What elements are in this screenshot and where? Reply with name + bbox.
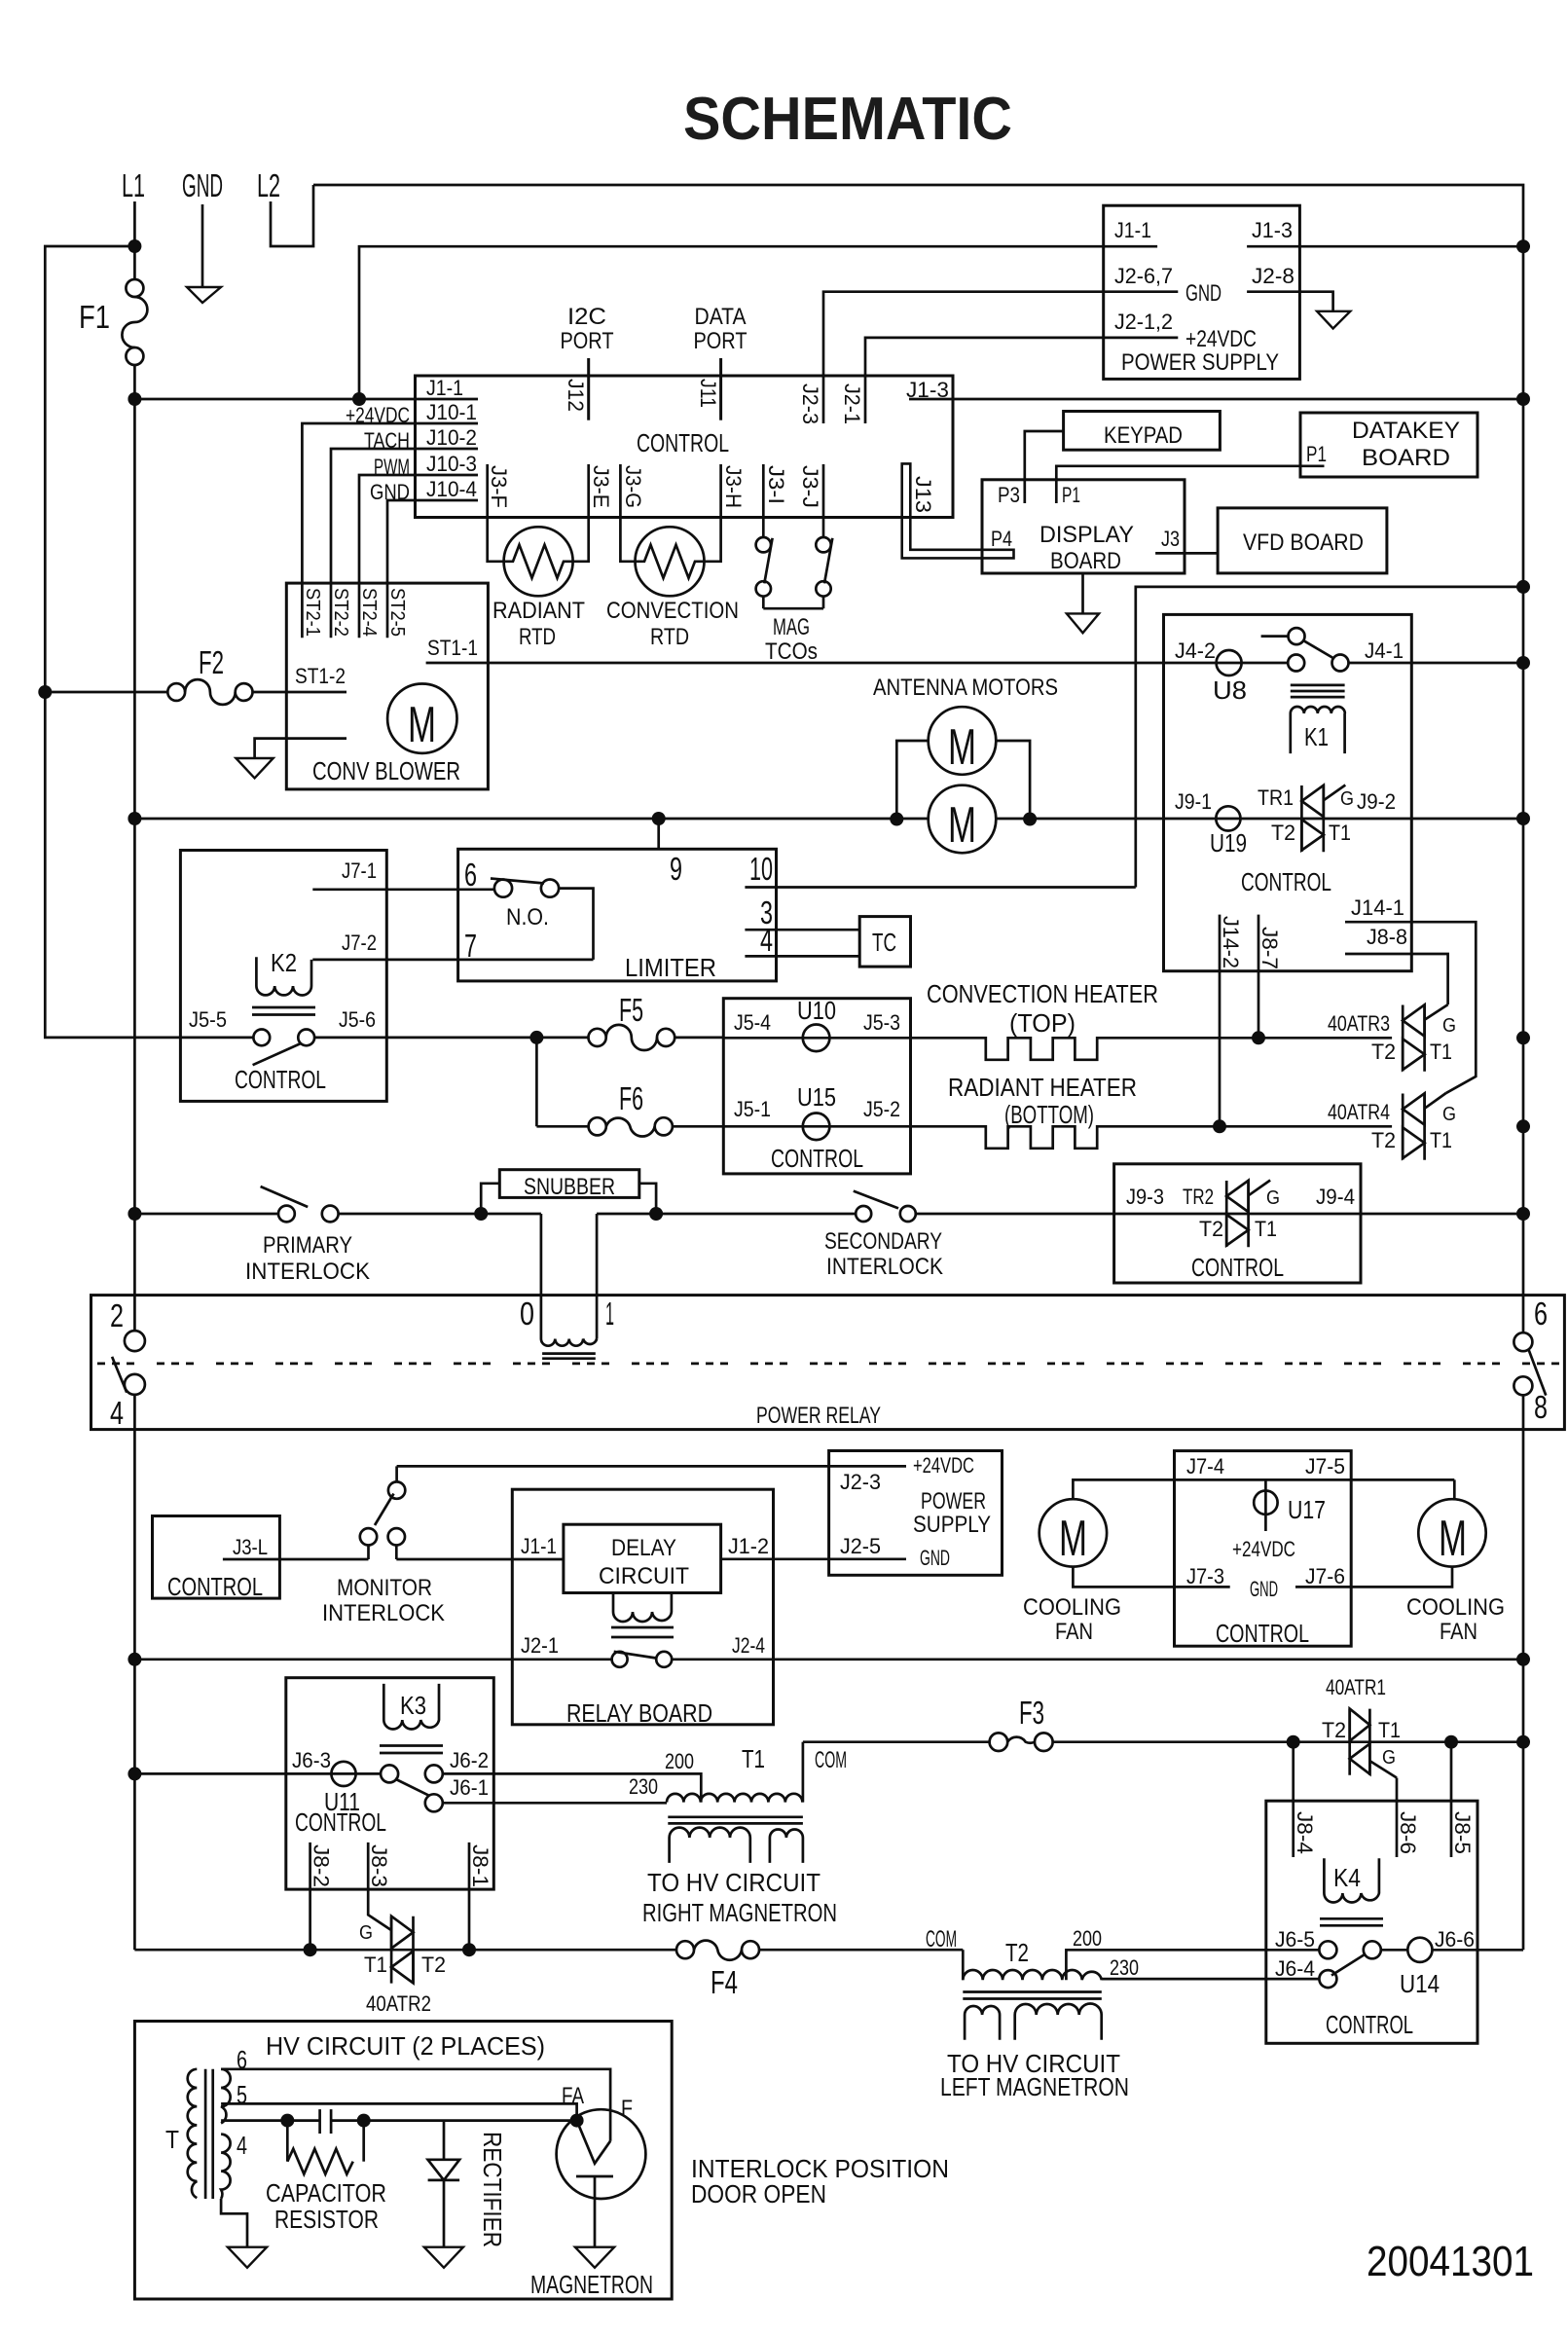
- svg-text:U14: U14: [1400, 1969, 1440, 1998]
- svg-text:T2: T2: [1371, 1128, 1396, 1152]
- label COOLING FAN left: [1023, 1594, 1121, 1645]
- wire power supply J1-1 link: [359, 246, 1104, 399]
- power relay coil 0/1: [541, 1339, 597, 1359]
- svg-text:J3-F: J3-F: [487, 465, 511, 508]
- svg-text:2: 2: [110, 1297, 124, 1333]
- svg-text:J8-1: J8-1: [468, 1844, 492, 1887]
- junction dot rail fans row: [1516, 1653, 1530, 1666]
- control box K3/U11: [286, 1678, 494, 1889]
- wire F1 to J1-1 row: [133, 365, 136, 399]
- svg-text:TR2: TR2: [1183, 1185, 1214, 1209]
- wire interlock row middle left: [339, 1213, 541, 1216]
- svg-text:GND: GND: [370, 480, 410, 504]
- transformer T2 primary: [963, 1950, 1102, 1998]
- junction dot rail y603: [1516, 580, 1530, 594]
- junction dot right rail J1-3 row: [1516, 392, 1530, 406]
- wire F4 to T2 COM: [759, 1949, 963, 1952]
- svg-text:U17: U17: [1288, 1495, 1326, 1524]
- pin line J12 I2C port: [587, 358, 590, 420]
- svg-text:T1: T1: [742, 1744, 765, 1773]
- svg-text:PORT: PORT: [694, 328, 748, 354]
- pin wire J8-3 to gate: [368, 1843, 391, 1930]
- control box TR2: [1114, 1164, 1361, 1283]
- svg-text:COOLING: COOLING: [1023, 1594, 1121, 1621]
- label PRIMARY INTERLOCK: [245, 1232, 370, 1285]
- motor antenna top: [929, 707, 997, 776]
- svg-text:J3-H: J3-H: [721, 465, 746, 508]
- label MONITOR INTERLOCK: [322, 1575, 445, 1626]
- svg-text:CONTROL: CONTROL: [637, 428, 729, 457]
- svg-text:J2-4: J2-4: [732, 1633, 765, 1658]
- svg-text:J2-8: J2-8: [1252, 264, 1295, 288]
- wire J5-1 J5-2 row: [723, 1125, 910, 1128]
- svg-text:KEYPAD: KEYPAD: [1104, 422, 1183, 449]
- heater radiant: [911, 1126, 1393, 1149]
- svg-text:G: G: [1382, 1747, 1396, 1769]
- control box K2: [180, 851, 386, 1102]
- svg-text:GND: GND: [1250, 1577, 1278, 1601]
- junction dot L1 J2-1 row: [128, 1653, 141, 1666]
- switch secondary interlock: [854, 1191, 916, 1222]
- svg-text:J5-3: J5-3: [863, 1010, 900, 1035]
- snubber box: [499, 1170, 639, 1198]
- svg-text:K4: K4: [1333, 1863, 1361, 1892]
- svg-text:P3: P3: [998, 483, 1020, 507]
- motor cooling fan right: [1418, 1499, 1485, 1567]
- svg-text:J7-1: J7-1: [342, 858, 377, 883]
- wire J5-5 inner: [180, 1037, 254, 1040]
- wire monitor interlock to +24VDC: [397, 1465, 829, 1468]
- VFD board box: [1218, 508, 1387, 573]
- svg-text:4: 4: [760, 922, 773, 958]
- wire T2 230 tap: [1102, 1979, 1320, 1980]
- wire keypad to P3: [1025, 431, 1064, 503]
- svg-text:J4-1: J4-1: [1365, 639, 1404, 663]
- wire J5-6 row: [314, 1037, 588, 1040]
- pin wire J3-J: [822, 464, 825, 537]
- label DISPLAY BOARD: [1039, 522, 1134, 574]
- svg-text:CONTROL: CONTROL: [167, 1572, 263, 1601]
- wire J4-1 to rail: [1349, 662, 1524, 665]
- wire J6-2 to T1 200: [443, 1773, 702, 1802]
- label RADIANT RTD: [492, 598, 585, 650]
- svg-text:230: 230: [1110, 1955, 1139, 1980]
- junction dot rail convection: [1516, 1031, 1530, 1044]
- svg-text:T1: T1: [364, 1953, 387, 1977]
- svg-text:CONTROL: CONTROL: [1191, 1253, 1284, 1282]
- wire HV pin 5: [221, 2103, 576, 2120]
- switch MAG TCO 1: [756, 537, 773, 608]
- control box U10/U15: [723, 999, 910, 1174]
- svg-text:J8-4: J8-4: [1293, 1811, 1317, 1854]
- relay switch K1: [1261, 628, 1349, 671]
- svg-text:PRIMARY: PRIMARY: [263, 1232, 352, 1259]
- svg-text:J7-2: J7-2: [342, 931, 377, 955]
- wire left fan bottom: [1073, 1567, 1229, 1588]
- wire power relay coil leg 1: [596, 1214, 599, 1339]
- svg-text:DELAY: DELAY: [611, 1535, 676, 1561]
- ground symbol at GND terminal: [187, 204, 221, 303]
- limiter box: [458, 849, 777, 981]
- svg-text:J9-3: J9-3: [1126, 1185, 1164, 1209]
- pin wire J10-2 TACH: [331, 449, 478, 638]
- wire interlock row middle right: [597, 1213, 856, 1216]
- component U14: [1400, 1938, 1440, 1998]
- svg-text:T2: T2: [1371, 1040, 1396, 1064]
- svg-text:TCOs: TCOs: [765, 639, 818, 665]
- junction dot motor left: [890, 813, 903, 826]
- svg-text:J3-G: J3-G: [621, 465, 645, 508]
- wire capacitor to FA: [331, 2119, 576, 2122]
- svg-text:G: G: [1442, 1015, 1456, 1037]
- ground symbol magnetron: [575, 2247, 614, 2268]
- motor antenna bottom: [929, 785, 997, 854]
- svg-text:ST2-5: ST2-5: [386, 588, 408, 637]
- wire T1 COM riser: [802, 1742, 805, 1803]
- label CAPACITOR RESISTOR: [266, 2178, 386, 2234]
- junction dot left rail F2: [38, 685, 52, 699]
- svg-text:J9-2: J9-2: [1357, 789, 1396, 814]
- label RADIANT HEATER (BOTTOM): [948, 1073, 1137, 1129]
- wire L1 rail upper: [133, 399, 136, 1331]
- wire power relay coil leg 0: [540, 1214, 543, 1339]
- svg-text:20041301: 20041301: [1367, 2238, 1534, 2285]
- svg-text:M: M: [948, 719, 976, 776]
- wire F6 branch: [535, 1038, 538, 1126]
- junction dot rail 40ATR1 row: [1516, 1735, 1530, 1749]
- svg-text:F5: F5: [619, 992, 643, 1028]
- wire F3 to 40ATR1: [1053, 1740, 1523, 1743]
- label I2C PORT: [561, 304, 614, 354]
- wire HV pin 4: [221, 2119, 320, 2122]
- svg-text:CONVECTION: CONVECTION: [606, 598, 739, 624]
- junction dot J8-5: [1444, 1735, 1458, 1749]
- junction dot right rail J1-1 row: [1516, 239, 1530, 253]
- ground symbol J2-8: [1317, 311, 1350, 329]
- svg-text:BOARD: BOARD: [1362, 445, 1450, 471]
- svg-text:FA: FA: [562, 2083, 584, 2109]
- triac TR2: [1226, 1180, 1270, 1247]
- power relay box: [91, 1296, 1565, 1430]
- wire U14 to rail: [1433, 1949, 1524, 1952]
- svg-text:L1: L1: [122, 167, 145, 203]
- svg-text:DATA: DATA: [695, 304, 747, 330]
- delay circuit box: [564, 1524, 721, 1592]
- component U19: [1210, 806, 1247, 858]
- svg-text:T1: T1: [1255, 1217, 1277, 1241]
- svg-text:J2-1: J2-1: [840, 383, 864, 424]
- wire display P1 to datakey: [1056, 466, 1324, 503]
- relay switch K2: [253, 1030, 315, 1066]
- svg-text:F2: F2: [199, 644, 224, 680]
- svg-text:4: 4: [237, 2131, 247, 2160]
- ground symbol display board: [1067, 573, 1099, 633]
- svg-text:TR1: TR1: [1258, 785, 1294, 810]
- wire monitor interlock to J1-1: [396, 1558, 564, 1561]
- relay switch (relay board): [612, 1652, 673, 1667]
- svg-text:MAGNETRON: MAGNETRON: [530, 2270, 653, 2299]
- pin wire J3-H: [704, 464, 721, 562]
- svg-text:RESISTOR: RESISTOR: [274, 2205, 379, 2234]
- pin wire J14-2: [1219, 915, 1222, 1126]
- pin wire J2-1: [865, 338, 1104, 423]
- pin line J2-1,2: [1104, 337, 1179, 340]
- ground symbol conv blower: [236, 739, 346, 779]
- wire HV pin 6: [221, 2069, 610, 2141]
- svg-text:RADIANT: RADIANT: [492, 598, 585, 624]
- svg-text:4: 4: [110, 1395, 124, 1431]
- svg-text:T2: T2: [421, 1953, 446, 1977]
- svg-text:TO HV CIRCUIT: TO HV CIRCUIT: [647, 1868, 820, 1897]
- svg-text:ST2-1: ST2-1: [302, 588, 323, 637]
- svg-text:P1: P1: [1306, 442, 1327, 466]
- svg-text:J8-7: J8-7: [1258, 927, 1282, 969]
- wire J6-3 row: [134, 1772, 381, 1775]
- power supply (top) box: [1104, 205, 1300, 379]
- svg-text:VFD BOARD: VFD BOARD: [1243, 529, 1364, 556]
- relay board box: [512, 1489, 773, 1725]
- svg-text:230: 230: [629, 1774, 658, 1799]
- svg-text:INTERLOCK: INTERLOCK: [322, 1600, 445, 1626]
- wire J7-1 row: [312, 888, 495, 891]
- junction dot rail interlock row: [1516, 1207, 1530, 1221]
- svg-text:CONVECTION HEATER: CONVECTION HEATER: [927, 979, 1158, 1008]
- svg-text:J7-6: J7-6: [1305, 1564, 1345, 1588]
- pin line J1-1 ps: [1104, 245, 1157, 248]
- svg-text:ST1-2: ST1-2: [295, 664, 346, 688]
- wire pin8 down: [1522, 1395, 1525, 1950]
- svg-text:COM: COM: [926, 1926, 957, 1953]
- wire rail through relay to pin6: [1522, 1296, 1525, 1333]
- junction dot J8-4: [1287, 1735, 1300, 1749]
- label TO HV CIRCUIT LEFT MAGNETRON: [940, 2049, 1129, 2101]
- pin wire J8-2: [309, 1843, 311, 1950]
- component U17: [1254, 1479, 1326, 1531]
- svg-text:0: 0: [520, 1296, 534, 1332]
- wire primary interlock row: [134, 1213, 278, 1216]
- svg-text:U19: U19: [1210, 828, 1247, 858]
- junction dot J14-2 radiant: [1213, 1119, 1226, 1133]
- svg-text:6: 6: [464, 857, 477, 893]
- wire J2-8 to ground: [1247, 292, 1333, 311]
- svg-text:RECTIFIER: RECTIFIER: [478, 2132, 507, 2247]
- power relay dashed line: [97, 1363, 1561, 1366]
- junction dot FA: [570, 2114, 584, 2128]
- junction dot rail J9-2: [1516, 812, 1530, 825]
- svg-text:CONTROL: CONTROL: [771, 1144, 863, 1173]
- svg-text:POWER SUPPLY: POWER SUPPLY: [1121, 349, 1279, 376]
- display board box: [982, 480, 1185, 573]
- ground symbol transformer T: [221, 2199, 267, 2268]
- svg-text:U15: U15: [797, 1082, 836, 1112]
- svg-text:CAPACITOR: CAPACITOR: [266, 2178, 386, 2208]
- control box K4/U14: [1266, 1801, 1477, 2043]
- svg-text:LEFT MAGNETRON: LEFT MAGNETRON: [940, 2072, 1129, 2101]
- wire left fan top: [1073, 1479, 1454, 1499]
- label MAG TCOs: [765, 614, 818, 665]
- fuse F6: [536, 1117, 723, 1136]
- fuse F2: [45, 679, 252, 705]
- relay coil K4: [1320, 1858, 1383, 1925]
- svg-text:J2-1: J2-1: [521, 1633, 559, 1658]
- wire N.O. to pin7: [559, 889, 593, 960]
- label DELAY CIRCUIT: [599, 1535, 689, 1589]
- svg-text:P4: P4: [991, 527, 1012, 551]
- svg-text:K2: K2: [271, 948, 297, 977]
- svg-text:T: T: [165, 2125, 179, 2154]
- svg-text:J10-3: J10-3: [426, 452, 477, 476]
- junction dot limiter pin9: [652, 812, 666, 825]
- svg-text:T2: T2: [1005, 1938, 1029, 1967]
- pin wire J8-1: [468, 1843, 471, 1950]
- junction dot J8-1 row: [462, 1943, 476, 1956]
- svg-text:(TOP): (TOP): [1009, 1008, 1076, 1038]
- pin wire J2-3: [823, 292, 1104, 423]
- svg-text:J7-5: J7-5: [1305, 1454, 1345, 1478]
- rectifier diode: [428, 2121, 460, 2247]
- pin wire J10-1 +24VDC: [302, 423, 478, 638]
- svg-text:CONTROL: CONTROL: [1241, 867, 1331, 896]
- svg-text:J6-5: J6-5: [1275, 1927, 1315, 1952]
- fuse F5: [589, 1025, 675, 1050]
- svg-text:J9-4: J9-4: [1316, 1185, 1355, 1209]
- svg-text:CONTROL: CONTROL: [235, 1065, 326, 1094]
- svg-text:+24VDC: +24VDC: [1232, 1537, 1295, 1561]
- control board (main): [416, 376, 954, 518]
- svg-text:ST1-1: ST1-1: [427, 636, 478, 660]
- wire snubber left leg: [481, 1184, 499, 1214]
- svg-text:40ATR3: 40ATR3: [1328, 1011, 1390, 1036]
- junction dot snubber left: [474, 1207, 488, 1221]
- svg-text:RIGHT MAGNETRON: RIGHT MAGNETRON: [642, 1898, 837, 1927]
- control box K1 (right): [1164, 614, 1412, 970]
- svg-text:CONTROL: CONTROL: [295, 1807, 386, 1837]
- svg-text:J14-1: J14-1: [1351, 895, 1404, 920]
- pin wire J3-E: [572, 464, 589, 562]
- relay contact 2-4: [112, 1331, 145, 1395]
- svg-text:J6-3: J6-3: [292, 1748, 331, 1772]
- svg-text:J10-4: J10-4: [426, 477, 477, 501]
- svg-text:J6-2: J6-2: [450, 1748, 489, 1772]
- svg-text:SECONDARY: SECONDARY: [824, 1228, 942, 1255]
- svg-text:J12: J12: [564, 379, 588, 412]
- relay coil K3: [380, 1684, 443, 1753]
- svg-text:FAN: FAN: [1440, 1619, 1477, 1645]
- component U10: [797, 996, 836, 1051]
- svg-text:J8-8: J8-8: [1367, 925, 1407, 949]
- svg-text:J6-1: J6-1: [450, 1775, 489, 1800]
- svg-text:GND: GND: [1185, 280, 1222, 307]
- svg-text:6: 6: [1534, 1296, 1548, 1332]
- svg-text:J9-1: J9-1: [1175, 789, 1212, 814]
- junction dot L1 motor row: [128, 812, 141, 825]
- pin wire J8-6: [1396, 1778, 1399, 1858]
- junction dot rail J4-1: [1516, 656, 1530, 670]
- svg-text:T2: T2: [1199, 1217, 1223, 1241]
- conv blower box: [286, 583, 488, 789]
- wire L1 stub: [133, 201, 136, 279]
- svg-text:J2-6,7: J2-6,7: [1114, 264, 1173, 288]
- svg-text:J5-5: J5-5: [189, 1007, 227, 1032]
- switch primary interlock: [261, 1186, 339, 1222]
- resistor RTD convection: [636, 527, 705, 596]
- power supply (lower) box: [829, 1451, 1003, 1576]
- junction dot J1-1 link: [352, 392, 366, 406]
- svg-text:GND: GND: [920, 1546, 950, 1570]
- svg-text:T2: T2: [1271, 821, 1295, 845]
- wire MAG TCO link: [763, 607, 823, 610]
- switch MAG TCO 2: [816, 537, 832, 608]
- relay coil K1: [1291, 685, 1345, 753]
- svg-text:SCHEMATIC: SCHEMATIC: [683, 86, 1012, 153]
- relay switch K3: [381, 1765, 443, 1811]
- svg-text:DISPLAY: DISPLAY: [1039, 522, 1134, 548]
- transformer T2 secondary: [965, 2004, 1102, 2040]
- ground symbol rectifier: [424, 2247, 463, 2268]
- svg-text:GND: GND: [182, 167, 223, 203]
- svg-text:P1: P1: [1062, 483, 1080, 507]
- wire 40ATR2 row: [134, 1949, 676, 1952]
- svg-text:40ATR1: 40ATR1: [1326, 1675, 1386, 1699]
- svg-text:J3: J3: [1161, 527, 1180, 551]
- svg-text:FAN: FAN: [1055, 1619, 1093, 1645]
- svg-text:1: 1: [605, 1296, 614, 1332]
- svg-text:MONITOR: MONITOR: [337, 1575, 432, 1601]
- svg-text:INTERLOCK: INTERLOCK: [826, 1254, 943, 1280]
- svg-text:J5-1: J5-1: [734, 1097, 771, 1121]
- svg-text:7: 7: [464, 928, 477, 964]
- svg-text:MAG: MAG: [773, 614, 810, 640]
- svg-text:RTD: RTD: [650, 624, 689, 650]
- thermocouple TC box: [859, 917, 910, 967]
- control box U17: [1175, 1451, 1352, 1647]
- pin wire J8-4: [1292, 1742, 1295, 1857]
- wire right rail upper: [1522, 246, 1525, 1296]
- svg-text:INTERLOCK: INTERLOCK: [245, 1259, 370, 1285]
- pin wire J3-F: [488, 464, 505, 562]
- pin wire limiter 4: [745, 955, 859, 958]
- svg-text:10: 10: [749, 851, 773, 887]
- pin wire J8-5: [1450, 1742, 1453, 1857]
- svg-text:POWER RELAY: POWER RELAY: [756, 1403, 881, 1429]
- svg-text:LIMITER: LIMITER: [625, 953, 716, 982]
- switch N.O.: [491, 879, 559, 897]
- svg-text:ST2-2: ST2-2: [330, 588, 351, 637]
- junction dot J8-2 row: [304, 1943, 317, 1956]
- svg-text:J13: J13: [911, 476, 935, 513]
- svg-text:J2-3: J2-3: [840, 1470, 881, 1494]
- triac 40ATR3: [1403, 1004, 1447, 1072]
- svg-text:HV CIRCUIT (2 PLACES): HV CIRCUIT (2 PLACES): [266, 2031, 545, 2061]
- datakey board box: [1300, 413, 1477, 477]
- svg-text:J8-2: J8-2: [310, 1844, 334, 1887]
- svg-text:40ATR2: 40ATR2: [366, 1991, 431, 2016]
- wire J7-2 row: [312, 959, 593, 962]
- triac 40ATR2: [391, 1916, 413, 1984]
- wire right fan bottom J7-6: [1295, 1567, 1452, 1588]
- svg-text:F3: F3: [1019, 1695, 1044, 1731]
- control box J3-L: [153, 1516, 280, 1599]
- junction dot rail radiant: [1516, 1119, 1530, 1133]
- svg-text:J5-6: J5-6: [339, 1007, 376, 1032]
- svg-text:J8-5: J8-5: [1450, 1811, 1475, 1854]
- svg-text:+24VDC: +24VDC: [1185, 326, 1257, 352]
- svg-text:RADIANT HEATER: RADIANT HEATER: [948, 1073, 1137, 1102]
- wire switch to U14: [1381, 1949, 1408, 1952]
- pin line J2-6,7: [1104, 290, 1179, 293]
- svg-text:J1-2: J1-2: [728, 1534, 769, 1558]
- svg-text:J10-1: J10-1: [426, 400, 477, 424]
